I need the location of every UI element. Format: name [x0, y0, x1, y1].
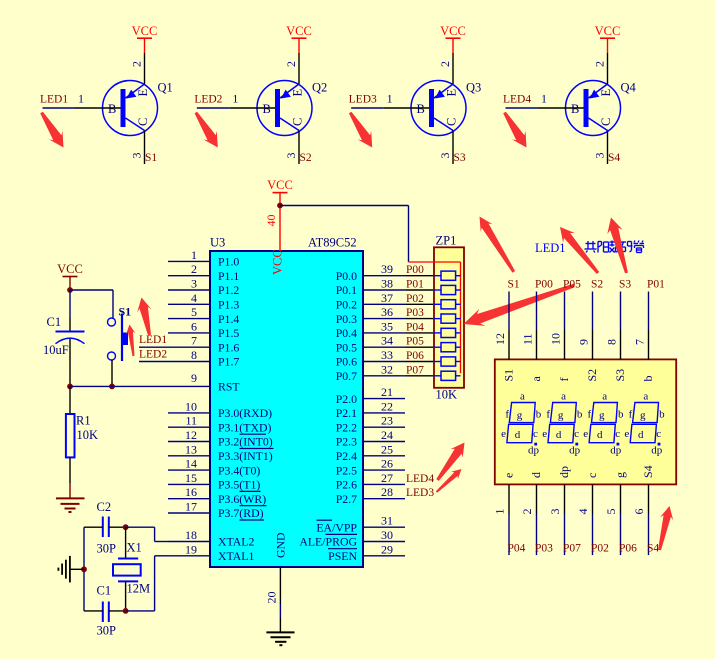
power VCC (Q1 emitter supply): [132, 24, 158, 53]
svg-text:P0.2: P0.2: [336, 298, 357, 312]
transistor Q2 (PNP): [257, 81, 312, 136]
svg-text:P2.7: P2.7: [336, 492, 357, 506]
svg-text:S3: S3: [619, 279, 631, 291]
svg-text:VCC: VCC: [57, 262, 83, 276]
svg-text:P3.0(RXD): P3.0(RXD): [218, 406, 272, 420]
svg-text:Q1: Q1: [158, 81, 173, 95]
capacitor C1 (30P bottom): [84, 602, 126, 623]
svg-text:g: g: [599, 410, 605, 422]
svg-text:P3.2(INT0): P3.2(INT0): [218, 435, 273, 449]
svg-text:30: 30: [381, 528, 393, 542]
display top pin 7 (b) wire: [648, 292, 650, 360]
resistor R1: [66, 386, 75, 483]
U3 pin 1 P1.0: [168, 248, 239, 269]
U3 pin 26 P2.5: [336, 457, 405, 478]
svg-text:30P: 30P: [97, 542, 117, 556]
svg-text:P1.5: P1.5: [218, 326, 239, 340]
svg-text:dp: dp: [651, 445, 663, 457]
svg-text:f: f: [546, 409, 550, 421]
display bottom pin 2 (d) wire: [536, 484, 538, 555]
U3 pin 17 P3.7(RD): [168, 500, 264, 521]
svg-text:S1: S1: [508, 279, 520, 291]
svg-text:VCC: VCC: [267, 178, 293, 192]
svg-text:C1: C1: [97, 584, 112, 598]
svg-text:11: 11: [185, 414, 197, 428]
wire Q4 collector: [607, 131, 609, 165]
svg-text:8: 8: [191, 348, 197, 362]
red callout arrow at LED3: [349, 112, 372, 148]
overline INT0: [240, 448, 274, 450]
svg-text:3: 3: [191, 277, 197, 291]
svg-text:dp: dp: [610, 445, 622, 457]
display bottom pin 5 (g) wire: [620, 484, 622, 555]
svg-text:P1.3: P1.3: [218, 298, 239, 312]
svg-text:g: g: [517, 410, 523, 422]
svg-text:1: 1: [541, 92, 547, 106]
svg-text:LED2: LED2: [139, 349, 167, 361]
svg-text:15: 15: [185, 471, 197, 485]
red callout arrow at LED1: [40, 112, 63, 148]
svg-text:5: 5: [604, 509, 618, 515]
svg-text:a: a: [561, 391, 566, 403]
svg-text:6: 6: [191, 319, 197, 333]
svg-text:S4: S4: [608, 152, 620, 164]
wire S1 bottom to RST net: [111, 360, 113, 386]
red callout arrow at LED4: [503, 112, 526, 148]
svg-text:P2.5: P2.5: [336, 463, 357, 477]
svg-text:12: 12: [493, 333, 507, 345]
svg-text:P2.3: P2.3: [336, 435, 357, 449]
svg-text:10K: 10K: [77, 428, 99, 442]
svg-text:34: 34: [381, 334, 393, 348]
svg-text:S1: S1: [145, 152, 157, 164]
svg-text:3: 3: [130, 153, 144, 159]
svg-text:e: e: [542, 428, 547, 440]
svg-text:S1: S1: [119, 305, 132, 319]
svg-text:37: 37: [381, 291, 393, 305]
svg-text:LED4: LED4: [503, 94, 531, 106]
svg-text:P1.6: P1.6: [218, 340, 239, 354]
svg-text:P1.2: P1.2: [218, 283, 239, 297]
power VCC (Q4 emitter supply): [595, 24, 621, 53]
svg-text:14: 14: [185, 457, 197, 471]
svg-text:4: 4: [191, 291, 197, 305]
ZP1 resistor element 3: [434, 300, 461, 309]
wire RST net to U3 pin 9: [70, 385, 168, 387]
svg-text:22: 22: [381, 399, 393, 413]
svg-text:VCC: VCC: [440, 24, 466, 38]
svg-text:S3: S3: [454, 152, 466, 164]
wire to crystal ground: [71, 568, 85, 570]
wire VCC junction to S1 top: [70, 290, 113, 318]
U3 pin 16 P3.6(WR): [168, 485, 266, 506]
svg-text:c: c: [533, 428, 538, 440]
svg-text:E: E: [291, 89, 305, 97]
svg-text:P07: P07: [563, 543, 581, 555]
svg-text:P01: P01: [406, 279, 424, 291]
svg-text:LED3: LED3: [349, 94, 377, 106]
U3 pin 34 P0.5: [336, 334, 434, 355]
svg-text:P06: P06: [406, 350, 424, 362]
svg-text:a: a: [520, 391, 525, 403]
svg-text:8: 8: [605, 339, 619, 345]
U3 pin 2 P1.1: [168, 262, 239, 283]
display bottom pin 4 (c) wire: [592, 484, 594, 555]
U3 pin 38 P0.1: [336, 277, 434, 298]
svg-text:XTAL1: XTAL1: [218, 549, 255, 563]
svg-text:2: 2: [438, 61, 452, 67]
svg-text:20: 20: [265, 592, 279, 604]
display top pin 8 (S3) wire: [620, 292, 622, 360]
svg-text:17: 17: [185, 500, 197, 514]
red callout arrow small at S1: [126, 325, 135, 357]
svg-text:S3: S3: [613, 369, 627, 382]
U3 pin 9 RST: [168, 371, 240, 394]
svg-text:P03: P03: [535, 543, 553, 555]
svg-text:f: f: [505, 409, 509, 421]
U3 pin 5 P1.4: [168, 305, 239, 326]
svg-text:E: E: [136, 89, 150, 97]
svg-text:23: 23: [381, 414, 393, 428]
svg-text:24: 24: [381, 428, 393, 442]
U3 pin 21 P2.0: [336, 385, 405, 406]
svg-text:2: 2: [284, 61, 298, 67]
U3 pin 6 P1.5: [168, 319, 239, 340]
svg-text:C1: C1: [47, 315, 62, 329]
svg-text:1: 1: [232, 92, 238, 106]
svg-text:P3.1(TXD): P3.1(TXD): [218, 420, 271, 434]
node ground tap junction: [81, 566, 87, 572]
red callout arrow at LED4: [436, 443, 464, 481]
svg-text:P1.4: P1.4: [218, 312, 239, 326]
U3 pin 8 P1.7: [139, 348, 239, 369]
svg-text:S1: S1: [502, 369, 516, 382]
svg-text:C: C: [291, 118, 305, 126]
svg-text:LED1: LED1: [139, 334, 167, 346]
svg-text:10: 10: [549, 333, 563, 345]
wire X1 top to XTAL2: [126, 527, 168, 541]
svg-text:9: 9: [191, 371, 197, 385]
svg-text:P0.7: P0.7: [336, 369, 357, 383]
svg-text:AT89C52: AT89C52: [308, 236, 357, 250]
wire X1 bottom to XTAL1: [126, 556, 168, 611]
svg-text:b: b: [641, 376, 655, 382]
power VCC (Q3 emitter supply): [440, 24, 466, 53]
svg-text:VCC: VCC: [286, 24, 312, 38]
svg-text:c: c: [585, 473, 599, 478]
svg-text:b: b: [659, 409, 665, 421]
svg-text:f: f: [588, 409, 592, 421]
U3 pin 3 P1.2: [168, 277, 239, 298]
svg-text:10K: 10K: [436, 388, 458, 402]
U3 pin 37 P0.2: [336, 291, 434, 312]
svg-text:C: C: [445, 118, 459, 126]
svg-text:a: a: [529, 376, 543, 382]
7-segment digit 2: [542, 391, 583, 457]
overline PROG: [326, 533, 358, 535]
svg-text:4: 4: [576, 509, 590, 515]
U3 pin 15 P3.5(T1): [168, 471, 260, 492]
svg-text:P2.6: P2.6: [336, 478, 357, 492]
wire Q3 base: [351, 107, 429, 109]
power VCC (reset circuit): [57, 262, 83, 290]
svg-text:LED4: LED4: [406, 473, 434, 485]
resistor network ZP1 body: [434, 247, 464, 387]
svg-text:f: f: [557, 378, 571, 382]
svg-text:P0.1: P0.1: [336, 283, 357, 297]
ZP1 resistor element 4: [434, 314, 461, 323]
svg-text:P03: P03: [406, 307, 424, 319]
node S1/RST junction: [109, 384, 115, 390]
svg-text:P3.3(INT1): P3.3(INT1): [218, 449, 273, 463]
U3 pin 35 P0.4: [336, 319, 434, 340]
ZP1 resistor element 2: [434, 285, 461, 294]
red callout arrow upper-left of display: [480, 217, 516, 273]
svg-text:P2.1: P2.1: [336, 406, 357, 420]
svg-text:EA/VPP: EA/VPP: [316, 520, 357, 534]
transistor Q4 (PNP): [566, 81, 621, 136]
svg-text:C: C: [599, 118, 613, 126]
svg-text:P0.3: P0.3: [336, 312, 357, 326]
svg-text:16: 16: [185, 485, 197, 499]
capacitor C1 (electrolytic 10uF): [56, 317, 85, 386]
svg-text:S2: S2: [591, 279, 603, 291]
svg-text:10uF: 10uF: [43, 343, 69, 357]
wire Q4 base: [505, 107, 583, 109]
svg-text:P0.4: P0.4: [336, 326, 357, 340]
svg-text:e: e: [501, 428, 506, 440]
ground (R1): [56, 498, 85, 512]
svg-text:9: 9: [577, 339, 591, 345]
svg-text:5: 5: [191, 305, 197, 319]
svg-text:1: 1: [191, 248, 197, 262]
node VCC junction: [67, 287, 73, 293]
svg-text:3: 3: [438, 153, 452, 159]
display bottom pin 3 (dp) wire: [564, 484, 566, 555]
svg-text:P3.5(T1): P3.5(T1): [218, 478, 260, 492]
svg-text:Q3: Q3: [466, 81, 481, 95]
svg-text:PSEN: PSEN: [328, 549, 357, 563]
svg-text:P2.2: P2.2: [336, 420, 357, 434]
wire VCC to Q1 emitter: [144, 53, 146, 84]
svg-text:d: d: [597, 429, 603, 441]
U3 pin 11 P3.1(TXD): [168, 414, 271, 435]
svg-text:B: B: [108, 102, 116, 116]
svg-text:33: 33: [381, 348, 393, 362]
node X1 top junction: [123, 524, 129, 530]
svg-text:VCC: VCC: [271, 249, 285, 275]
U3 pin 25 P2.4: [336, 442, 405, 463]
transistor Q3 (PNP): [411, 81, 466, 136]
svg-text:LED1: LED1: [40, 94, 68, 106]
svg-text:12M: 12M: [127, 582, 151, 596]
svg-text:LED1: LED1: [535, 241, 566, 255]
op IC U3 AT89C52 body: [210, 251, 363, 567]
U3 pin 12 P3.2(INT0): [168, 428, 273, 449]
U3 pin 31 EA/VPP: [316, 514, 405, 535]
svg-text:Q2: Q2: [312, 81, 327, 95]
svg-text:P0.0: P0.0: [336, 269, 357, 283]
svg-text:P02: P02: [591, 543, 609, 555]
svg-text:dp: dp: [569, 445, 581, 457]
svg-text:P00: P00: [535, 279, 553, 291]
svg-text:P01: P01: [647, 279, 665, 291]
svg-text:P04: P04: [406, 321, 424, 333]
svg-text:P2.0: P2.0: [336, 392, 357, 406]
7-segment digit 1: [501, 391, 542, 457]
svg-text:P05: P05: [563, 279, 581, 291]
svg-text:g: g: [558, 410, 564, 422]
svg-text:29: 29: [381, 542, 393, 556]
node VCC/ZP1 junction: [277, 203, 283, 209]
svg-text:7: 7: [191, 334, 197, 348]
display top pin 11 (a) wire: [536, 292, 538, 360]
svg-text:S4: S4: [647, 543, 659, 555]
wire R1 to ground: [69, 483, 71, 498]
svg-text:d: d: [529, 472, 543, 478]
svg-text:2: 2: [191, 262, 197, 276]
ZP1 resistor element 7: [434, 357, 461, 366]
U3 pin 28 P2.7: [336, 485, 405, 506]
svg-text:C: C: [136, 118, 150, 126]
svg-text:40: 40: [264, 215, 278, 227]
svg-text:2: 2: [593, 61, 607, 67]
switch S1 (push button): [108, 314, 129, 362]
svg-text:S4: S4: [641, 465, 655, 478]
svg-text:36: 36: [381, 305, 393, 319]
svg-text:P06: P06: [619, 543, 637, 555]
U3 pin 7 P1.6: [139, 334, 239, 355]
overline EA: [317, 519, 333, 521]
svg-text:35: 35: [381, 319, 393, 333]
svg-text:dp: dp: [528, 445, 540, 457]
svg-text:1: 1: [78, 92, 84, 106]
svg-text:1: 1: [493, 509, 507, 515]
U3 pin 39 P0.0: [336, 262, 434, 283]
U3 pin 23 P2.2: [336, 414, 405, 435]
wire VCC to Q2 emitter: [298, 53, 300, 84]
svg-text:ALE/PROG: ALE/PROG: [299, 535, 357, 549]
svg-text:39: 39: [381, 262, 393, 276]
U3 pin 22 P2.1: [336, 399, 405, 420]
crystal X1: [113, 527, 141, 611]
svg-text:27: 27: [381, 471, 393, 485]
svg-text:30P: 30P: [97, 624, 117, 638]
svg-text:P3.4(T0): P3.4(T0): [218, 463, 260, 477]
svg-text:B: B: [263, 102, 271, 116]
U3 pin 20 GND: [265, 532, 288, 632]
svg-text:g: g: [640, 410, 646, 422]
svg-text:b: b: [618, 409, 624, 421]
display top pin 12 (S1) wire: [508, 292, 510, 360]
svg-text:3: 3: [548, 509, 562, 515]
U3 pin 30 ALE/PROG: [299, 528, 405, 549]
svg-text:21: 21: [381, 385, 393, 399]
ZP1 resistor element 5: [434, 328, 461, 337]
overline PSEN: [328, 548, 357, 550]
svg-text:B: B: [571, 102, 579, 116]
red callout arrow above S3: [607, 218, 628, 274]
svg-text:P00: P00: [406, 264, 424, 276]
node C1/RST junction: [67, 384, 73, 390]
wire left rail of crystal loop: [83, 527, 85, 611]
svg-text:P07: P07: [406, 364, 424, 376]
svg-text:e: e: [624, 428, 629, 440]
U3 pin 4 P1.3: [168, 291, 239, 312]
svg-text:10: 10: [185, 399, 197, 413]
svg-text:d: d: [556, 429, 562, 441]
svg-text:2: 2: [130, 61, 144, 67]
red callout arrow at LED2: [195, 112, 218, 148]
wire VCC to ZP1 common: [280, 206, 409, 263]
svg-text:Q4: Q4: [621, 81, 637, 95]
svg-text:b: b: [536, 409, 542, 421]
power VCC (U3 pin 40): [267, 178, 293, 251]
svg-text:X1: X1: [127, 541, 142, 555]
ground (crystal, sideways): [58, 556, 70, 583]
U3 pin 27 P2.6: [336, 471, 405, 492]
svg-text:P3.7(RD): P3.7(RD): [218, 506, 264, 520]
transistor Q1 (PNP): [103, 81, 158, 136]
wire VCC junction to C1: [69, 290, 71, 317]
svg-text:3: 3: [593, 153, 607, 159]
svg-text:13: 13: [185, 442, 197, 456]
red callout arrow at LED3: [436, 469, 462, 493]
overline TXD: [240, 433, 267, 435]
svg-text:32: 32: [381, 362, 393, 376]
overline WR: [240, 505, 267, 507]
svg-text:6: 6: [632, 509, 646, 515]
ground (U3 GND): [266, 632, 294, 645]
svg-text:a: a: [602, 391, 607, 403]
U3 pin 33 P0.6: [336, 348, 434, 369]
svg-text:E: E: [445, 89, 459, 97]
svg-text:U3: U3: [210, 236, 225, 250]
svg-text:P05: P05: [406, 336, 424, 348]
display top pin 9 (S2) wire: [592, 292, 594, 360]
svg-text:f: f: [629, 409, 633, 421]
capacitor C2 (30P): [84, 517, 126, 538]
U3 pin 32 P0.7: [336, 362, 434, 383]
svg-text:P1.0: P1.0: [218, 255, 239, 269]
svg-text:b: b: [577, 409, 583, 421]
svg-text:dp: dp: [557, 466, 571, 478]
ZP1 resistor element 1: [434, 271, 461, 280]
svg-text:P3.6(WR): P3.6(WR): [218, 492, 266, 506]
svg-text:LED2: LED2: [194, 94, 222, 106]
svg-text:P1.7: P1.7: [218, 355, 239, 369]
wire VCC to Q3 emitter: [452, 53, 454, 84]
svg-text:C2: C2: [97, 500, 112, 514]
U3 pin 10 P3.0(RXD): [168, 399, 272, 420]
svg-text:VCC: VCC: [132, 24, 158, 38]
U3 pin 24 P2.3: [336, 428, 405, 449]
svg-text:P0.6: P0.6: [336, 355, 357, 369]
ZP1 resistor element 6: [434, 343, 461, 352]
overline T1: [240, 490, 261, 492]
red callout arrow at ZP1: [464, 284, 575, 326]
svg-text:S2: S2: [585, 369, 599, 382]
svg-text:c: c: [656, 428, 661, 440]
svg-text:XTAL2: XTAL2: [218, 535, 255, 549]
node X1 bottom junction: [123, 608, 129, 614]
ZP1 resistor element 8: [434, 371, 461, 380]
svg-text:38: 38: [381, 277, 393, 291]
svg-text:S2: S2: [300, 152, 312, 164]
wire Q2 base: [197, 107, 275, 109]
svg-text:P1.1: P1.1: [218, 269, 239, 283]
svg-text:c: c: [574, 428, 579, 440]
